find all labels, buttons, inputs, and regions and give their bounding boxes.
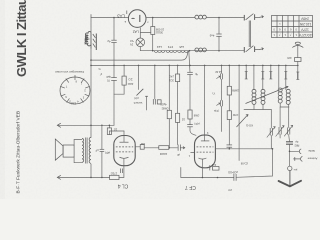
wire H9 anode line [229, 148, 272, 150]
wire H5 arrow to CF7 grid [180, 147, 184, 149]
inductor Dr1 on H1 [195, 15, 206, 19]
capacitor C7 on x102 lower [100, 125, 105, 177]
wire CF7 grid pin stub [191, 151, 195, 153]
node H9 junction [272, 148, 274, 150]
node junction H2 x219 [218, 50, 220, 52]
node H6 junctions [90, 177, 92, 179]
wire drop coil A [253, 65, 255, 89]
tick above corner [90, 14, 92, 17]
table voltage labels [298, 16, 313, 37]
ground arrow [279, 181, 301, 187]
capacitor C8 box right of CL4 [140, 145, 144, 150]
coil bottom links [253, 104, 255, 109]
wire trimmer feed 1 [270, 110, 272, 129]
wire drop coil C [278, 65, 280, 88]
lamp E10 [136, 38, 145, 47]
terminal arrow TA2 [57, 175, 61, 179]
capacitor C13 4n5 R82 [286, 142, 293, 166]
node H7 junctions [202, 177, 204, 179]
wire lamp bottom stem [139, 47, 141, 51]
node junction R3 bottom on H5 [169, 147, 171, 149]
contact K2 [261, 65, 264, 89]
jack Erde [290, 149, 302, 154]
capacitor C11 series on H7 [234, 174, 236, 181]
tube CL4 [109, 131, 135, 177]
inductor Dr2 on H2 [195, 48, 206, 52]
trimmer capacitor CT2 [276, 126, 285, 138]
resistor R1 10008/30 [151, 18, 155, 51]
coil LA [252, 89, 256, 104]
wire H7 right and corner up [236, 149, 272, 178]
coil DW variable inductor on V1 [85, 31, 96, 50]
trimmer capacitor CT3 [284, 125, 293, 141]
wire C12 to bus [297, 62, 299, 66]
band switch arrow [246, 86, 289, 103]
node jack junction [289, 151, 291, 153]
terminal arrow mains L [260, 15, 264, 18]
wire trimmer feed 2 [279, 107, 281, 127]
voltage table [272, 16, 313, 38]
node junction R1 top [152, 17, 154, 19]
light antenna symbol [292, 42, 303, 57]
wire H2b return [91, 51, 188, 60]
wire lamp link [140, 32, 151, 34]
capacitor C12 box [295, 58, 301, 62]
capacitor C1 on V2 [111, 18, 116, 66]
resistor R8 cathode 1725 [110, 175, 124, 179]
wire H2 lamp to switch [140, 50, 244, 52]
coil LB [261, 89, 265, 104]
contact K3 [269, 65, 272, 79]
wire H5 to cap [169, 147, 178, 149]
capacitor C6 cathode bypass [121, 169, 123, 174]
speaker [55, 139, 82, 163]
wire H7 bottom [181, 168, 234, 178]
trimmer capacitor C5 [216, 65, 222, 131]
socket pin numbers [65, 80, 86, 104]
wire H5 middle [144, 147, 159, 149]
mains switch S1b [244, 46, 259, 53]
wire anode feed CF7 [204, 65, 206, 140]
coil LD [286, 89, 290, 104]
node bus junctions [90, 59, 298, 66]
choke La5 bumps [178, 51, 189, 53]
label KS arrow [237, 115, 249, 128]
switch link bar [249, 21, 250, 48]
resistor column R6 [227, 65, 233, 148]
wire H4 pickup top [58, 124, 115, 126]
jack Antenne [294, 157, 303, 162]
choke FT3 bumps [166, 51, 177, 53]
node junction V2 on H1 [113, 17, 115, 19]
coil LC [278, 88, 282, 103]
wire LA3 bottom stem [139, 28, 141, 38]
mains switch S1a [244, 14, 259, 21]
node junction V3 top [218, 17, 220, 19]
wire H1 right segment with junctions [146, 17, 195, 19]
wire H6 bottom left [58, 176, 110, 178]
capacitor C4 with box [153, 65, 161, 104]
rectifier tube LA3 [128, 10, 146, 28]
capacitor C2 on V3 [216, 18, 221, 51]
choke La3 bumps [154, 51, 165, 53]
tube CF7 [195, 135, 230, 177]
resistor R5 [187, 72, 196, 135]
contact K4 [284, 65, 287, 89]
output transformer [82, 137, 91, 163]
table cell digits [273, 22, 297, 37]
wire V1 bottom [90, 164, 92, 177]
terminal arrow mains N [260, 48, 264, 51]
node junction H2 x190 [189, 50, 191, 52]
wire drop x239 [238, 65, 240, 160]
node H4 junction [101, 125, 103, 127]
wire V1 middle [90, 49, 92, 138]
resistor R9 [159, 146, 169, 150]
wire H1 to switch [206, 17, 244, 19]
wire H5 coupling [135, 146, 140, 148]
bus H3 main [91, 64, 298, 66]
wire vertical x187.6 [189, 51, 190, 73]
ground arrow stem [289, 171, 291, 187]
node junction H2 x153 [152, 50, 154, 52]
resistor R7 above CL4 [107, 125, 111, 134]
capacitor C9 series [178, 145, 180, 151]
trimmer capacitor CT1 [267, 127, 275, 149]
wire H1 top mains wire left segment [91, 18, 128, 32]
tube socket diagram Fassung [60, 75, 90, 104]
resistor R3 [167, 65, 171, 147]
capacitor C3 electrolytic on x102 [111, 65, 117, 125]
capacitor C10 below CF7 [210, 165, 219, 170]
lamp jack small circle [288, 166, 292, 170]
terminal arrow TA1 [57, 123, 61, 127]
contact K1 [245, 65, 248, 79]
contact K5 [296, 65, 299, 79]
resistor R2 [114, 65, 126, 94]
resistor R4 [176, 65, 180, 144]
switch S2 wave switch [137, 65, 148, 110]
